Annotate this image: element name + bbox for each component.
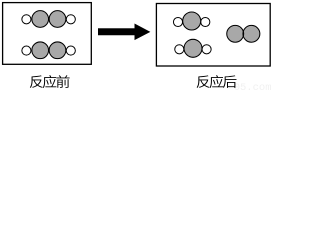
molecule 1 (white-gray-gray-white, top of left box) [22, 11, 76, 28]
box: before reaction [3, 3, 92, 65]
label "反应前" (before reaction) [30, 75, 70, 88]
svg-text:05.com: 05.com [234, 82, 272, 93]
molecule 2 (white-gray-gray-white, bottom of left box) [22, 42, 76, 59]
molecule 4 (white-gray-white, bottom of right box) [175, 39, 211, 57]
box: after reaction [156, 4, 270, 67]
molecule 3 (white-gray-white, top of right box) [173, 12, 209, 30]
molecule 5 (gray-gray pair, right box) [227, 25, 260, 42]
reaction arrow [98, 24, 149, 40]
label "反应后" (after reaction) [197, 75, 237, 88]
